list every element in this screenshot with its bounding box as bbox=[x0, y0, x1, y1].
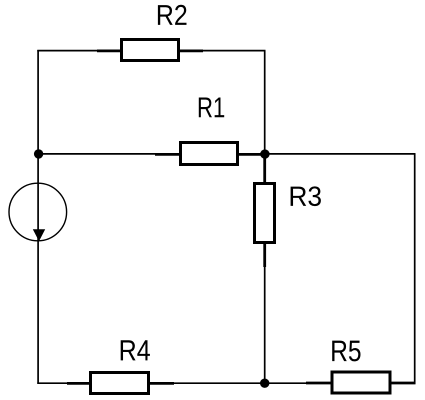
resistor R5 bbox=[306, 372, 416, 393]
node junction dot middle bbox=[260, 149, 269, 158]
label R1 bbox=[199, 97, 224, 117]
node junction dot bottom bbox=[260, 379, 269, 388]
resistor R4 bbox=[67, 373, 174, 394]
wire top horizontal right segment bbox=[203, 50, 266, 52]
wire left vertical (top corner to bottom corner, passes through source) bbox=[37, 50, 39, 384]
wire top horizontal left segment bbox=[37, 50, 98, 52]
wire bottom horizontal left segment bbox=[37, 382, 68, 384]
wire middle horizontal right segment bbox=[263, 153, 416, 155]
wire middle horizontal left segment bbox=[37, 153, 156, 155]
label R2 bbox=[158, 5, 187, 25]
wire right-branch vertical (R2 to middle node) bbox=[264, 51, 266, 154]
resistor R2 bbox=[97, 40, 203, 61]
label R5 bbox=[332, 341, 360, 362]
label R4 bbox=[121, 340, 150, 360]
resistor R3 bbox=[255, 156, 275, 267]
wire far right vertical bbox=[414, 154, 416, 384]
label R3 bbox=[291, 186, 321, 206]
current source I1 bbox=[9, 183, 67, 241]
resistor R1 bbox=[155, 143, 263, 165]
node junction dot left bbox=[34, 149, 43, 158]
wire bottom horizontal middle segment bbox=[174, 382, 307, 384]
wire R3 bottom vertical bbox=[264, 267, 266, 383]
